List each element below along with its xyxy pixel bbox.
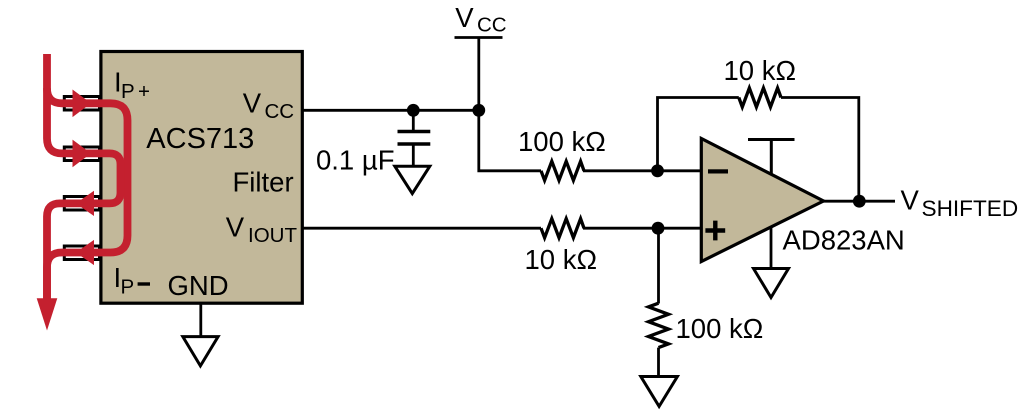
wire VCC bar down to junction — [477, 38, 480, 111]
wire VCC junction down to 100k row — [479, 110, 541, 171]
red arrowhead out of pin 3 — [76, 191, 94, 216]
red arrowhead out of pin 4 — [76, 240, 94, 265]
wire resistor to inverting node — [583, 169, 702, 172]
capacitor bottom lead — [412, 144, 415, 167]
chip ACS713 body — [101, 52, 302, 304]
pin 1 (IP+ top) — [64, 97, 99, 111]
resistor 100 kOhm pulldown (vertical) — [649, 303, 669, 347]
red arrowhead at bottom of current path — [37, 298, 58, 330]
svg-text:SHIFTED: SHIFTED — [922, 196, 1019, 221]
ground symbol under chip — [183, 337, 218, 366]
junction dot at capacitor tap — [407, 104, 420, 117]
svg-text:CC: CC — [265, 100, 295, 123]
red arrowhead into pin 1 — [73, 90, 92, 118]
svg-text:CC: CC — [477, 14, 507, 37]
capacitor C 0.1uF top lead — [412, 110, 415, 130]
ground symbol under pulldown resistor — [641, 377, 678, 407]
red current path: outer loop inside chip pin1 to pin4 — [62, 103, 128, 252]
ground symbol under capacitor — [395, 166, 430, 193]
svg-text:10 kΩ: 10 kΩ — [724, 55, 797, 86]
pin 4 (IP- bottom) — [64, 246, 99, 260]
svg-text:10 kΩ: 10 kΩ — [525, 244, 598, 275]
svg-text:0.1 µF: 0.1 µF — [316, 145, 395, 176]
op-amp power stub T — [748, 140, 795, 176]
junction dot non-inverting node — [652, 222, 665, 235]
pin 3 — [64, 197, 99, 211]
VCC supply bar — [455, 36, 503, 39]
svg-text:+: + — [138, 80, 150, 103]
svg-text:V: V — [243, 87, 262, 118]
red current path: exit from pin 4 joining the down line — [47, 253, 62, 301]
svg-text:GND: GND — [168, 270, 229, 301]
svg-text:IOUT: IOUT — [248, 224, 297, 247]
red current path: branch from entry line into pin 1 — [47, 88, 100, 103]
red current path: entry vertical line feeding pins 1 and 2 — [47, 54, 100, 153]
red current path: inner loop inside chip pin2 to pin3 — [60, 153, 121, 203]
junction dot inverting node — [651, 164, 664, 177]
red arrowhead into pin 2 — [73, 140, 92, 168]
wire resistor to non-inverting node — [583, 227, 702, 230]
resistor 10 kOhm (to non-inverting input) — [541, 219, 584, 238]
svg-text:100 kΩ: 100 kΩ — [676, 313, 764, 344]
wire non-inverting node down to pulldown resistor — [657, 228, 660, 303]
svg-text:P: P — [121, 276, 135, 299]
svg-text:V: V — [226, 211, 245, 242]
op-amp plus sign — [705, 221, 725, 241]
ground symbol under op-amp — [754, 269, 789, 298]
capacitor C 0.1uF plates — [398, 130, 431, 134]
op-amp ground stub — [770, 228, 773, 270]
wire pulldown resistor to ground — [657, 348, 660, 377]
output wire from op-amp apex — [822, 200, 895, 203]
op-amp U1 triangle — [701, 139, 823, 262]
junction dot output node — [853, 195, 866, 208]
svg-text:V: V — [455, 2, 474, 33]
feedback wire up from inverting node — [658, 98, 739, 171]
svg-text:ACS713: ACS713 — [146, 123, 254, 155]
junction dot at VCC branch — [472, 104, 485, 117]
feedback wire down to output node — [781, 98, 859, 202]
wire chip VIOUT to 10k resistor — [302, 227, 541, 230]
svg-text:100 kΩ: 100 kΩ — [518, 126, 606, 157]
resistor 10 kOhm feedback — [739, 88, 781, 107]
resistor 100 kOhm (to inverting input) — [541, 161, 584, 180]
wire chip GND to ground — [199, 304, 202, 337]
svg-text:P: P — [121, 80, 135, 103]
pin 2 — [64, 147, 99, 161]
svg-text:V: V — [901, 185, 920, 216]
wire chip VCC pin to VCC junction — [302, 109, 479, 112]
red current path: exit from pin 3 curving down to output line — [47, 203, 60, 300]
op-amp minus sign — [708, 169, 728, 173]
svg-text:AD823AN: AD823AN — [783, 225, 905, 256]
svg-text:Filter: Filter — [233, 167, 294, 198]
